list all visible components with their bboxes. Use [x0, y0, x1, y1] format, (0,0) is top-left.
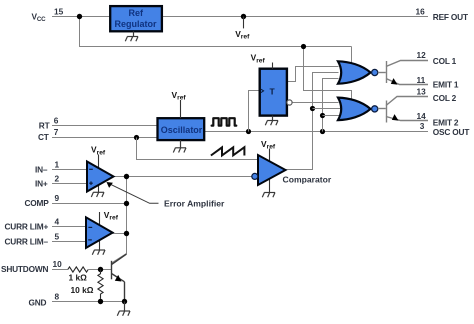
- ground current limit amp: [92, 250, 105, 255]
- wire T flip-flop Q output to NOR U1 input1: [287, 67, 339, 82]
- emitter arrow Q1: [391, 78, 398, 85]
- svg-text:Vref: Vref: [172, 90, 187, 102]
- ground comparator: [262, 193, 275, 198]
- svg-text:3: 3: [420, 121, 425, 131]
- svg-text:1 kΩ: 1 kΩ: [69, 272, 88, 282]
- ground main: [117, 311, 130, 316]
- svg-text:1: 1: [55, 159, 60, 169]
- wire COMP pin 9: [52, 203, 127, 205]
- wire CURR LIM- pin 5: [52, 241, 86, 243]
- node shutdown base junction: [98, 267, 103, 272]
- wire oscillator junction up to T flip-flop clock: [249, 91, 260, 132]
- node oscillator rail to gate input3 junction: [320, 129, 325, 134]
- node error amplifier output junction: [124, 174, 129, 179]
- svg-text:Vref: Vref: [261, 139, 276, 151]
- pin NOR U2 output bubble: [372, 106, 378, 112]
- svg-text:14: 14: [417, 111, 427, 121]
- svg-text:8: 8: [55, 292, 60, 302]
- wire CT junction down to comparator ramp input: [137, 138, 259, 160]
- wire VCC rail drop into NOR gate U1 top: [351, 47, 353, 64]
- svg-text:COL 2: COL 2: [433, 93, 457, 103]
- svg-text:RT: RT: [39, 120, 50, 130]
- symbol sawtooth wave: [211, 147, 245, 155]
- wire oscillator ground stem: [180, 140, 182, 148]
- svg-text:Regulator: Regulator: [115, 19, 158, 29]
- svg-text:Vref: Vref: [235, 29, 250, 41]
- ground T flip-flop: [265, 121, 278, 126]
- svg-text:Comparator: Comparator: [283, 175, 332, 185]
- wire feedback vertical COMP/currlim/transistor: [111, 177, 126, 264]
- wire Oscillator output to OSC OUT rail: [204, 131, 428, 133]
- wire VCC pin to junction and Ref Regulator input: [52, 16, 110, 18]
- op-amp current limit amplifier U7: [86, 217, 113, 248]
- svg-text:10: 10: [53, 259, 63, 269]
- svg-text:9: 9: [55, 193, 60, 203]
- wire IN+ pin 2 to error amplifier: [52, 183, 87, 185]
- wire SHUTDOWN pin 10 to 1k resistor: [52, 269, 68, 271]
- ground oscillator: [173, 148, 186, 153]
- svg-text:Oscillator: Oscillator: [161, 125, 203, 135]
- resistor R1 1 kOhm: [68, 267, 88, 272]
- wire ref regulator ground stem: [133, 31, 135, 36]
- wire T flip-flop Qbar output to NOR U2 input1: [292, 102, 338, 104]
- comparator U8: [258, 155, 286, 185]
- node comparator input dot: [252, 173, 258, 179]
- wire error amp Vref/ground line: [98, 154, 100, 192]
- wire 1k resistor to base junction: [88, 269, 111, 271]
- wire GND stem: [124, 302, 126, 312]
- svg-text:VCC: VCC: [32, 12, 47, 24]
- node COMP junction: [124, 201, 129, 206]
- wire VCC rail branch to NOR gate U2 top: [304, 47, 352, 100]
- wire oscillator blanking vertical to NOR inputs: [323, 79, 339, 132]
- svg-text:Vref: Vref: [251, 53, 266, 65]
- wire comparator Vref/ground line: [269, 149, 271, 193]
- svg-text:EMIT 1: EMIT 1: [433, 80, 459, 90]
- svg-text:SHUTDOWN: SHUTDOWN: [1, 264, 48, 274]
- emitter arrow Q2: [392, 114, 399, 121]
- svg-text:REF OUT: REF OUT: [433, 12, 468, 22]
- svg-text:T: T: [270, 87, 276, 97]
- symbol square wave: [212, 118, 237, 125]
- wire T flip-flop ground stem: [272, 116, 274, 121]
- wire T flip-flop Vref stub: [272, 63, 274, 69]
- node VCC junction: [77, 14, 82, 19]
- svg-text:CURR LIM+: CURR LIM+: [5, 222, 49, 232]
- resistor R2 10 kOhm: [98, 270, 103, 299]
- svg-text:5: 5: [55, 232, 60, 242]
- transistor Q1 output: [378, 61, 428, 85]
- svg-text:7: 7: [54, 127, 59, 137]
- ground error amp: [91, 192, 104, 197]
- wire blanking to NOR U2 input3: [323, 115, 340, 117]
- svg-text:Vref: Vref: [104, 210, 119, 222]
- wire RT pin 6 to Oscillator: [52, 125, 158, 127]
- NOR gate U2: [338, 98, 371, 121]
- arrowhead error amplifier leader: [107, 182, 113, 188]
- node Vref tap on REF line: [241, 14, 246, 19]
- wire GND pin 8 rail: [52, 301, 125, 303]
- wire error amplifier output to comparator input: [114, 176, 253, 178]
- wire Ref Regulator output to REF OUT pin 16: [162, 16, 428, 18]
- wire Vref label stub: [243, 17, 245, 29]
- wire current limit amp output: [113, 233, 127, 235]
- ground ref regulator: [125, 37, 138, 42]
- leader line error amplifier label: [111, 184, 159, 203]
- wire current limit Vref/ground line: [99, 212, 101, 250]
- node junction on VCC rail: [301, 44, 306, 49]
- svg-text:IN–: IN–: [35, 164, 48, 174]
- wire VCC junction down to VCC rail: [80, 17, 352, 47]
- svg-text:CURR LIM–: CURR LIM–: [5, 237, 49, 247]
- node 10k to GND junction: [98, 299, 103, 304]
- svg-text:6: 6: [54, 115, 59, 125]
- pin T flip-flop Qbar bubble: [287, 100, 292, 105]
- svg-text:EMIT 2: EMIT 2: [433, 117, 459, 127]
- node current limit output junction: [124, 231, 129, 236]
- svg-text:13: 13: [417, 87, 427, 97]
- transistor Q3 shutdown: [112, 254, 127, 302]
- block Oscillator U4: [158, 118, 205, 140]
- op-amp error amplifier U6: [87, 162, 114, 192]
- svg-text:Vref: Vref: [91, 145, 106, 157]
- svg-text:GND: GND: [29, 297, 47, 307]
- NOR gate U1: [338, 61, 371, 83]
- node CT junction: [134, 135, 139, 140]
- svg-text:4: 4: [55, 217, 60, 227]
- svg-text:OSC OUT: OSC OUT: [433, 127, 470, 137]
- pin NOR U1 output bubble: [372, 69, 378, 75]
- wire CURR LIM+ pin 4: [52, 226, 86, 228]
- block T flip-flop U5: [260, 69, 287, 116]
- svg-text:Error Amplifier: Error Amplifier: [164, 199, 225, 209]
- wire CT pin 7 to Oscillator: [52, 137, 158, 139]
- svg-text:COMP: COMP: [25, 198, 50, 208]
- wire comparator output to NOR gates: [286, 73, 339, 170]
- node emitter to GND junction: [122, 299, 127, 304]
- svg-text:CT: CT: [38, 132, 49, 142]
- transistor Q2 output: [378, 97, 428, 123]
- wire oscillator Vref stub: [180, 100, 182, 118]
- node NOR U2 blanking input junction: [320, 113, 325, 118]
- node oscillator output junction: [246, 129, 251, 134]
- svg-text:IN+: IN+: [35, 178, 48, 188]
- svg-text:11: 11: [417, 75, 426, 85]
- svg-text:COL 1: COL 1: [433, 56, 457, 66]
- svg-text:16: 16: [416, 7, 426, 17]
- svg-text:Ref: Ref: [129, 8, 145, 18]
- emitter arrow Q3: [115, 275, 122, 282]
- node comparator signal to NOR U2 junction: [310, 106, 315, 111]
- svg-text:12: 12: [417, 50, 427, 60]
- block Ref Regulator U3: [110, 6, 162, 31]
- svg-text:2: 2: [55, 173, 60, 183]
- wire comparator signal to NOR U2 input2: [313, 108, 341, 110]
- svg-text:10 kΩ: 10 kΩ: [71, 285, 94, 295]
- svg-text:15: 15: [54, 7, 64, 17]
- wire IN- pin 1 to error amplifier: [52, 169, 87, 171]
